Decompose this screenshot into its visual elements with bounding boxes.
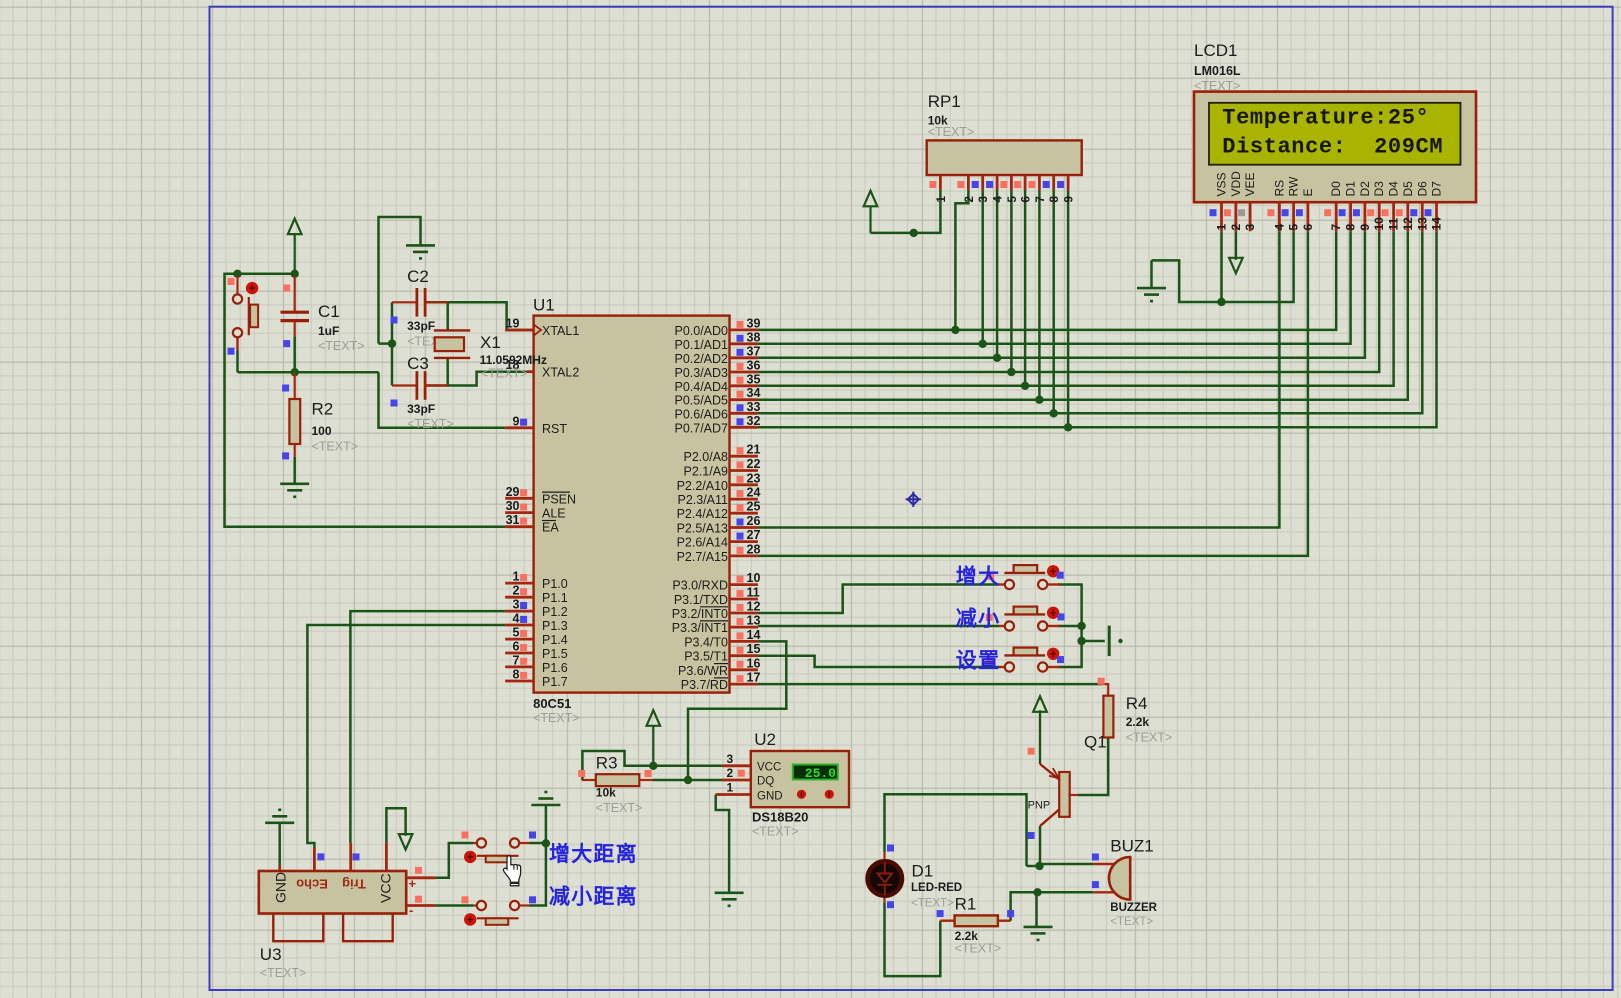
svg-text:15: 15 (747, 642, 761, 656)
U2 up/down buttons (797, 790, 806, 799)
wire to BUZ1 pin1 (1040, 863, 1094, 866)
svg-text:P1.0: P1.0 (542, 577, 568, 591)
svg-text:29: 29 (506, 485, 520, 499)
svg-text:33pF: 33pF (407, 319, 435, 333)
U3 right pin stubs + and - (406, 878, 435, 906)
svg-text:D0: D0 (1329, 181, 1343, 197)
svg-text:VSS: VSS (1215, 172, 1229, 196)
svg-text:C2: C2 (407, 267, 429, 286)
wire jog to cap column (379, 342, 393, 345)
svg-text:GND: GND (273, 872, 289, 903)
wire distance ground rail (530, 805, 546, 906)
svg-text:21: 21 (747, 443, 761, 457)
svg-text:D6: D6 (1415, 181, 1429, 197)
ground (U3, flipped) (265, 810, 294, 823)
svg-text:P2.3/A11: P2.3/A11 (677, 493, 728, 507)
svg-text:14: 14 (747, 628, 761, 642)
svg-text:9: 9 (1064, 196, 1076, 202)
U1 right pin numbers and labels (737, 321, 744, 328)
wire ground stem (LCD) (1150, 260, 1153, 288)
svg-text:PNP: PNP (1028, 800, 1051, 812)
wire LCD VDD down (1235, 231, 1238, 260)
svg-text:7: 7 (513, 653, 520, 667)
junction on RP1 pin1 wire (910, 229, 918, 237)
svg-text:P3.0/RXD: P3.0/RXD (672, 579, 728, 593)
svg-text:VEE: VEE (1243, 172, 1257, 196)
svg-text:16: 16 (747, 656, 761, 670)
wire R4 bottom to Q1 base (1078, 738, 1108, 796)
junction RP1-9 on P0.7 (1064, 423, 1072, 431)
svg-text:RS: RS (1272, 180, 1286, 197)
svg-text:X1: X1 (480, 333, 501, 352)
svg-text:U3: U3 (260, 945, 282, 964)
svg-text:3: 3 (1243, 224, 1257, 231)
junction C1 top/power (291, 270, 299, 278)
power VCC arrow (U2) (647, 710, 661, 726)
push button ZengDa (增大) (999, 583, 1005, 585)
power VCC arrow (reset) (288, 219, 302, 235)
wire U3 + to button ZengDaJuLi (435, 843, 473, 878)
junction RP1-2 on P0.0 (951, 326, 959, 334)
svg-text:D3: D3 (1372, 181, 1386, 197)
junction VSS/ground (1217, 298, 1225, 306)
svg-text:P0.5/AD5: P0.5/AD5 (674, 394, 728, 408)
svg-text:28: 28 (747, 542, 761, 556)
svg-text:26: 26 (747, 514, 761, 528)
U1 left pin stubs (505, 330, 533, 681)
svg-text:80C51: 80C51 (533, 696, 571, 711)
svg-text:P0.2/AD2: P0.2/AD2 (674, 352, 728, 366)
svg-text:8: 8 (1344, 224, 1358, 231)
wire P1.3 to U3 Echo (307, 625, 505, 848)
svg-text:<TEXT>: <TEXT> (260, 966, 307, 980)
svg-text:1: 1 (513, 570, 520, 584)
svg-text:33pF: 33pF (407, 402, 435, 416)
wire LCD VSS down (1220, 231, 1223, 302)
push button JianXiaoJuLi (减小距离) (473, 904, 477, 906)
wire U1 P3.4 to DS18B20 DQ (688, 641, 786, 780)
U1 right pin stubs (730, 330, 758, 684)
svg-text:31: 31 (506, 513, 520, 527)
svg-text:<TEXT>: <TEXT> (1126, 731, 1173, 745)
svg-text:3: 3 (978, 196, 990, 202)
svg-text:VDD: VDD (1229, 171, 1243, 197)
wire P0.6 bus to LCD D6 (758, 231, 1422, 413)
svg-text:XTAL2: XTAL2 (542, 366, 579, 380)
svg-text:6: 6 (513, 640, 520, 654)
svg-text:1: 1 (936, 196, 948, 203)
svg-text:P0.3/AD3: P0.3/AD3 (674, 366, 728, 380)
junction rail/terminal branch (1077, 637, 1085, 645)
svg-text:2: 2 (727, 766, 734, 780)
svg-text:RST: RST (542, 422, 567, 436)
ground (LCD) (1137, 288, 1166, 301)
svg-text:<TEXT>: <TEXT> (312, 440, 359, 454)
svg-text:10: 10 (1372, 217, 1386, 231)
svg-text:4: 4 (1272, 224, 1286, 231)
svg-text:Distance: 209CM: Distance: 209CM (1222, 134, 1443, 159)
junction C1 bottom/R2 (291, 368, 299, 376)
wire X1 top link (446, 302, 449, 330)
wire X1 bottom link (446, 358, 449, 386)
svg-text:P3.6/WR: P3.6/WR (678, 664, 728, 678)
wire buttons right rail (1058, 585, 1082, 668)
wire switch bottom drop (236, 351, 239, 373)
svg-text:减小: 减小 (956, 607, 1001, 631)
svg-text:减小距离: 减小距离 (549, 885, 638, 909)
svg-text:13: 13 (1415, 217, 1429, 231)
svg-text:<TEXT>: <TEXT> (928, 125, 975, 139)
svg-text:5: 5 (1007, 196, 1019, 203)
wire P1.2 to U3 Trig (350, 611, 505, 843)
wire U3 - to button JianXiaoJuLi (435, 904, 473, 907)
crystal X1 (434, 330, 470, 358)
wire RP1 pin9 drop (1067, 190, 1070, 427)
svg-text:3: 3 (727, 752, 734, 766)
svg-text:5: 5 (513, 626, 520, 640)
wire P0.4 bus to LCD D4 (758, 231, 1394, 386)
svg-text:P1.6: P1.6 (542, 661, 568, 675)
wire cap left column (391, 302, 394, 385)
push button SheZhi (设置) (999, 666, 1005, 668)
ground (distance buttons, flipped) (531, 792, 560, 805)
U2 temperature display (793, 765, 838, 780)
svg-text:DS18B20: DS18B20 (752, 810, 808, 825)
svg-text:P0.1/AD1: P0.1/AD1 (674, 338, 728, 352)
junction RP1-6 on P0.4 (1021, 382, 1029, 390)
svg-text:P3.1/TXD: P3.1/TXD (674, 593, 728, 607)
svg-text:P1.1: P1.1 (542, 591, 568, 605)
svg-text:22: 22 (747, 457, 761, 471)
svg-text:P0.7/AD7: P0.7/AD7 (674, 421, 728, 435)
svg-text:P2.5/A13: P2.5/A13 (677, 522, 728, 536)
svg-text:9: 9 (1358, 224, 1372, 231)
resistor R1 (940, 920, 954, 922)
buzzer BUZ1 (1093, 863, 1114, 865)
svg-text:BUZ1: BUZ1 (1110, 837, 1153, 856)
svg-text:8: 8 (1049, 196, 1061, 203)
svg-text:39: 39 (747, 316, 761, 330)
svg-text:R3: R3 (596, 754, 618, 773)
wire RP1 pin3 drop (981, 190, 984, 344)
resistor R4 (1103, 696, 1113, 738)
svg-text:36: 36 (747, 359, 761, 373)
wire U1 P3.5 to button SheZhi (758, 656, 999, 667)
svg-text:1uF: 1uF (318, 324, 339, 338)
svg-text:38: 38 (747, 330, 761, 344)
junction VCC arrow/R3 net (649, 762, 657, 770)
ground (U2) (715, 893, 744, 906)
module U3 (HC-SR04 style) body (259, 871, 406, 914)
svg-text:Trig: Trig (342, 877, 366, 892)
svg-text:23: 23 (747, 471, 761, 485)
svg-text:37: 37 (747, 344, 761, 358)
svg-text:LED-RED: LED-RED (911, 882, 962, 894)
svg-text:P3.5/T1: P3.5/T1 (684, 650, 728, 664)
svg-text:P3.7/RD: P3.7/RD (681, 678, 728, 692)
svg-text:D2: D2 (1358, 181, 1372, 197)
svg-text:RP1: RP1 (928, 92, 961, 111)
push button JianXiao (减小) (999, 625, 1005, 627)
svg-text:<TEXT>: <TEXT> (955, 942, 1002, 956)
wire R2 to ground (293, 457, 296, 477)
svg-text:<TEXT>: <TEXT> (911, 898, 954, 910)
junction distance rail (542, 839, 550, 847)
wire ZengDaJuLi right (530, 842, 546, 845)
svg-text:P1.2: P1.2 (542, 605, 568, 619)
svg-text:ALE: ALE (542, 507, 566, 521)
resistor R2 (294, 372, 296, 399)
wire RP1 pin6 drop (1024, 190, 1027, 386)
wire P0.5 bus to LCD D5 (758, 231, 1408, 400)
svg-text:R4: R4 (1126, 694, 1148, 713)
svg-text:P0.0/AD0: P0.0/AD0 (674, 324, 728, 338)
svg-text:LCD1: LCD1 (1194, 41, 1237, 60)
wire P0.0 bus to LCD D0 (758, 231, 1336, 330)
svg-text:27: 27 (747, 528, 761, 542)
wire C1 bottom net (238, 371, 379, 374)
ground (buzzer/R1) (1024, 927, 1053, 940)
svg-text:D1: D1 (1344, 181, 1358, 197)
junction C2/C3 left (388, 339, 396, 347)
svg-text:9: 9 (513, 414, 520, 428)
IC U1 80C51 microcontroller (534, 316, 730, 693)
junction rail/JianXiao (1077, 622, 1085, 630)
wire U3 VCC to arrow (386, 808, 405, 842)
transistor Q1 PNP (1059, 772, 1070, 817)
svg-text:EA: EA (542, 521, 559, 535)
svg-text:E: E (1301, 188, 1315, 196)
wire to terminal bar (1082, 640, 1105, 643)
svg-text:2: 2 (513, 584, 520, 598)
svg-text:14: 14 (1430, 217, 1444, 231)
svg-text:1: 1 (727, 781, 734, 795)
svg-text:设置: 设置 (956, 650, 1001, 673)
svg-text:19: 19 (506, 317, 520, 331)
wire EA to VCC net (225, 274, 506, 527)
svg-text:10k: 10k (596, 786, 616, 800)
capacitor C3 (392, 384, 416, 386)
wire U1 P3.2 to button ZengDa (758, 585, 999, 614)
wire to RST pin (379, 372, 506, 428)
svg-text:VCC: VCC (757, 762, 781, 774)
svg-text:7: 7 (1329, 224, 1343, 231)
power VCC arrow (RP1) (864, 191, 878, 207)
svg-text:<TEXT>: <TEXT> (318, 339, 365, 353)
LCD screen (1209, 103, 1461, 165)
wire JianXiao right (1058, 625, 1082, 628)
svg-text:VCC: VCC (378, 873, 394, 903)
junction RP1-7 on P0.5 (1035, 396, 1043, 404)
svg-text:12: 12 (1401, 217, 1415, 231)
svg-text:11.0592MHz: 11.0592MHz (480, 353, 547, 367)
svg-text:<TEXT>: <TEXT> (1110, 916, 1153, 928)
svg-text:11: 11 (747, 586, 760, 600)
junction RP1-8 on P0.6 (1050, 409, 1058, 417)
svg-text:25.0: 25.0 (805, 766, 836, 781)
svg-text:Echo: Echo (296, 877, 328, 892)
svg-text:2.2k: 2.2k (1126, 715, 1150, 729)
LCD pin stubs (1222, 202, 1437, 231)
svg-text:R2: R2 (312, 400, 334, 419)
svg-text:-: - (409, 903, 413, 918)
wire RP1 pin8 drop (1052, 190, 1055, 413)
svg-text:30: 30 (506, 499, 520, 513)
svg-text:D7: D7 (1430, 181, 1444, 197)
svg-text:1: 1 (1215, 224, 1229, 231)
wire C3 right to XTAL2 (426, 372, 527, 386)
svg-text:13: 13 (747, 614, 761, 628)
svg-text:10: 10 (747, 571, 761, 585)
RP1 pin stubs (940, 175, 1068, 190)
svg-text:BUZZER: BUZZER (1110, 902, 1157, 914)
svg-text:24: 24 (747, 486, 761, 500)
svg-text:D1: D1 (912, 862, 934, 881)
junction DQ net (684, 776, 692, 784)
svg-text:2: 2 (964, 196, 976, 202)
wire P0.2 bus to LCD D2 (758, 231, 1365, 358)
wire P0.3 bus to LCD D3 (758, 231, 1379, 372)
svg-text:P1.4: P1.4 (542, 633, 568, 647)
junction buzzer/ground (1033, 888, 1041, 896)
power arrow down (LCD VDD) (1229, 258, 1243, 274)
lead switch bottom (236, 337, 238, 350)
svg-text:7: 7 (1035, 196, 1047, 202)
svg-text:P2.6/A14: P2.6/A14 (677, 536, 728, 550)
wire VCC net top (238, 273, 295, 276)
svg-text:D5: D5 (1401, 181, 1415, 197)
svg-text:R1: R1 (955, 895, 977, 914)
svg-text:P1.3: P1.3 (542, 619, 568, 633)
wire P0.7 bus to LCD D7 (758, 231, 1437, 427)
U3 bottom tabs (273, 914, 323, 942)
svg-text:<TEXT>: <TEXT> (752, 825, 799, 839)
junction RP1-4 on P0.2 (993, 354, 1001, 362)
svg-text:增大: 增大 (956, 565, 1001, 589)
wire P0.1 bus to LCD D1 (758, 231, 1351, 344)
svg-text:3: 3 (513, 598, 520, 612)
svg-text:DQ: DQ (757, 775, 774, 787)
svg-text:P3.2/INT0: P3.2/INT0 (672, 607, 728, 621)
svg-text:P2.7/A15: P2.7/A15 (677, 550, 728, 564)
svg-text:11: 11 (1387, 217, 1401, 230)
wire LCD RS to U1 P2.5 (758, 231, 1280, 527)
svg-text:RW: RW (1287, 176, 1301, 196)
svg-text:Q1: Q1 (1084, 733, 1107, 752)
svg-text:<TEXT>: <TEXT> (596, 801, 643, 815)
U1 XTAL1 clock input symbol (534, 325, 542, 336)
wire to D1 anode (885, 794, 1027, 866)
wire LCD RW to ground net (1152, 231, 1294, 302)
svg-text:6: 6 (1301, 224, 1315, 231)
svg-text:<TEXT>: <TEXT> (533, 711, 580, 725)
junction RP1-3 on P0.1 (979, 340, 987, 348)
svg-text:35: 35 (747, 372, 761, 386)
wire RP1 pin5 drop (1010, 190, 1013, 372)
wire LCD E to U1 P2.7 (758, 231, 1308, 556)
svg-text:25: 25 (747, 500, 761, 514)
svg-text:6: 6 (1021, 196, 1033, 202)
svg-text:P0.4/AD4: P0.4/AD4 (674, 380, 728, 394)
svg-text:32: 32 (747, 414, 761, 428)
wire to ground (buzzer) (1035, 892, 1038, 927)
wire D1 cathode to R1 (885, 902, 941, 976)
wire cap-gnd loop (379, 217, 421, 344)
lead R4 top (1101, 684, 1108, 696)
power VCC arrow (Q1) (1033, 696, 1047, 712)
svg-text:PSEN: PSEN (542, 492, 576, 506)
wire R3 right to DQ (653, 779, 722, 782)
svg-text:LM016L: LM016L (1194, 64, 1241, 78)
wire RP1 pin1 to VCC (871, 190, 941, 233)
svg-text:Temperature:25°: Temperature:25° (1222, 105, 1429, 130)
svg-text:C3: C3 (407, 354, 429, 373)
origin crosshair marker (906, 492, 921, 507)
wire U1 P3.3 to button JianXiao (758, 625, 999, 628)
push button reset (vertical) (236, 276, 238, 295)
svg-text:P1.7: P1.7 (542, 675, 568, 689)
wire U2 GND to ground (716, 795, 729, 893)
wire Q1 collector down (1039, 826, 1042, 866)
junction collector node (1035, 862, 1043, 870)
svg-text:33: 33 (747, 400, 761, 414)
svg-text:4: 4 (993, 196, 1005, 203)
wire RP1 pin4 drop (996, 190, 999, 358)
wire U1 P3.7 to R4 (758, 683, 1101, 686)
svg-text:<TEXT>: <TEXT> (481, 367, 528, 381)
svg-text:U2: U2 (754, 730, 776, 749)
resistor pack RP1 (927, 140, 1082, 175)
wire C2 right to XTAL1 (426, 302, 534, 330)
wire R3 loop to U2 VCC (582, 751, 722, 780)
svg-text:+: + (409, 876, 417, 891)
junction switch/C1 top (233, 270, 241, 278)
svg-text:P2.0/A8: P2.0/A8 (684, 450, 729, 464)
svg-text:U1: U1 (533, 296, 555, 315)
svg-text:增大距离: 增大距离 (549, 842, 638, 866)
wire U3 GND stem (278, 823, 281, 866)
svg-text:P1.5: P1.5 (542, 647, 568, 661)
mouse cursor (hand) (503, 856, 520, 886)
svg-text:D4: D4 (1387, 181, 1401, 197)
svg-text:GND: GND (757, 791, 783, 803)
svg-text:P2.4/A12: P2.4/A12 (677, 507, 728, 521)
svg-text:C1: C1 (318, 302, 340, 321)
svg-text:17: 17 (747, 671, 761, 685)
svg-text:12: 12 (747, 600, 761, 614)
wire RP1 pin7 drop (1038, 190, 1041, 400)
svg-text:8: 8 (513, 668, 520, 682)
svg-text:2: 2 (1229, 224, 1243, 231)
svg-text:4: 4 (513, 612, 520, 626)
wire C1 bottom lead green (293, 336, 296, 372)
wire RP1 pin2 drop (955, 190, 968, 330)
capacitor C1 (294, 276, 296, 311)
svg-text:34: 34 (747, 386, 761, 400)
svg-text:P3.4/T0: P3.4/T0 (684, 635, 728, 649)
svg-text:P0.6/AD6: P0.6/AD6 (674, 407, 728, 421)
capacitor C2 (392, 301, 416, 303)
svg-text:P2.1/A9: P2.1/A9 (684, 465, 729, 479)
LED D1 LED-RED (883, 852, 885, 861)
power arrow down (U3 VCC) (399, 834, 413, 850)
junction RP1-5 on P0.3 (1007, 368, 1015, 376)
U3 top pin stubs (280, 843, 387, 871)
wire R1 to BUZ1 pin2 (1011, 892, 1094, 920)
svg-text:5: 5 (1287, 224, 1301, 231)
wire collector to D1 branch (1027, 865, 1040, 868)
svg-text:P3.3/INT1: P3.3/INT1 (672, 621, 728, 635)
